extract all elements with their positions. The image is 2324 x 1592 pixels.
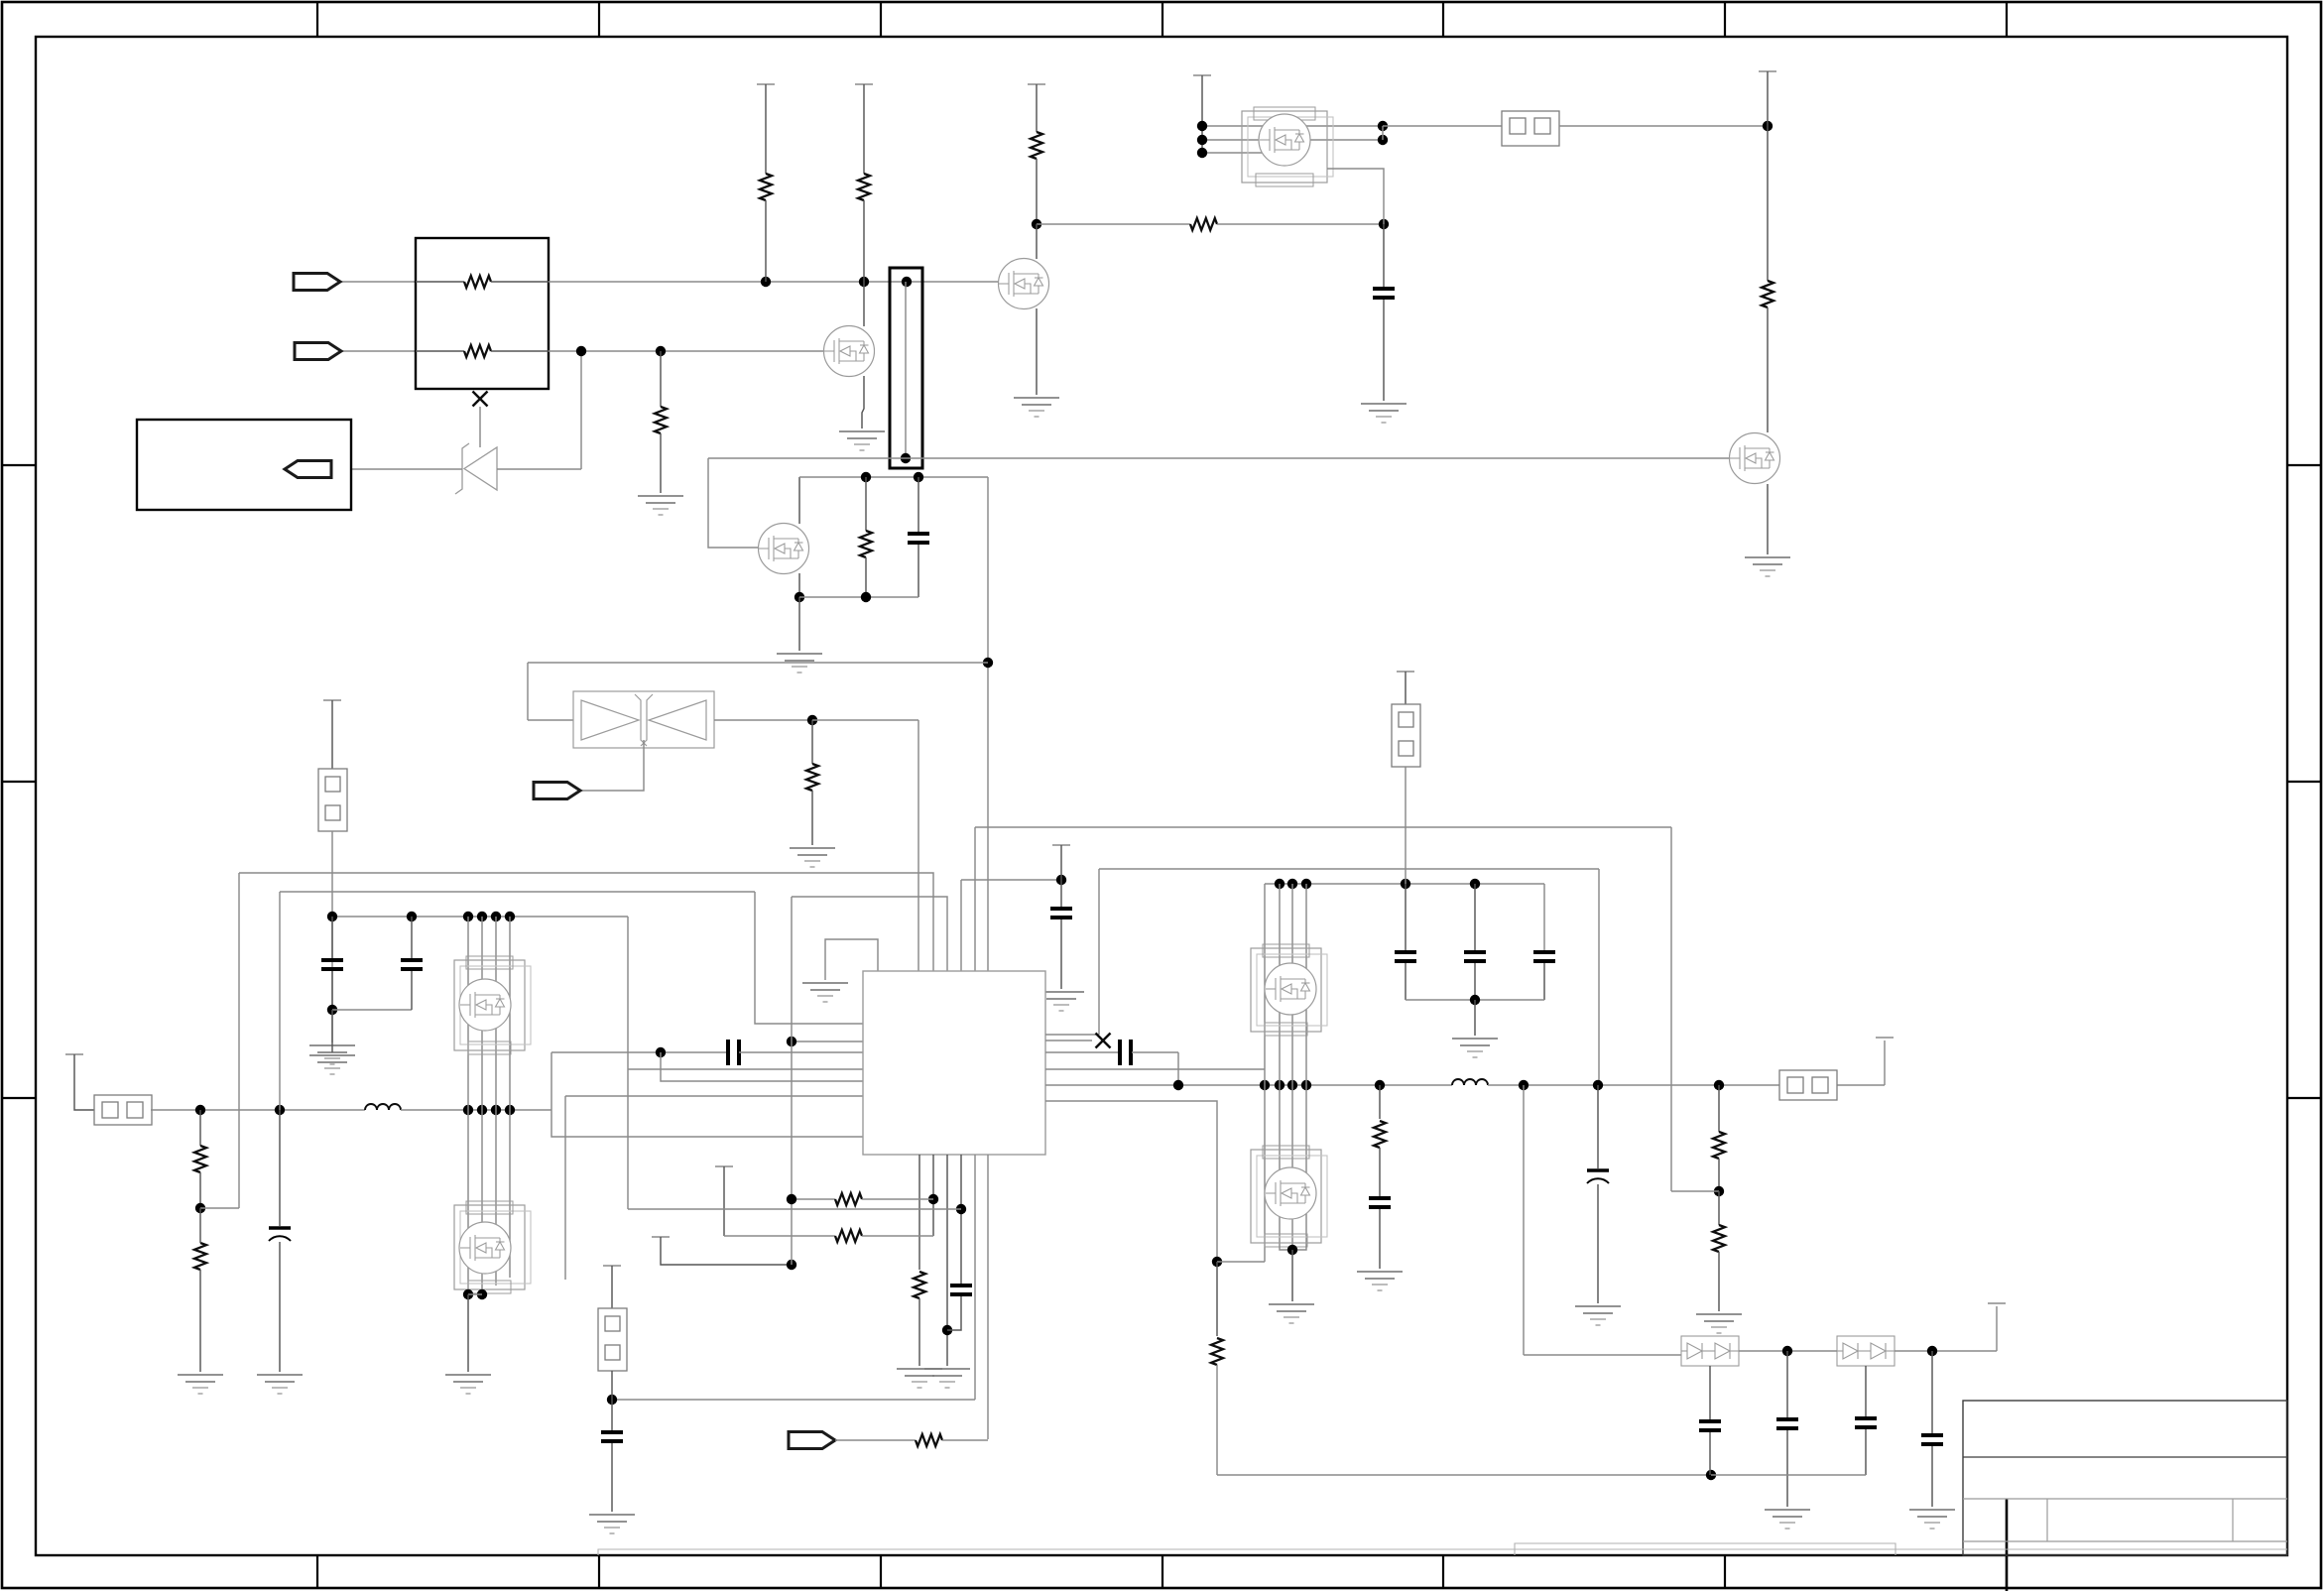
wire net834 down x1685 (1670, 827, 1672, 1191)
resistor R14 (835, 1193, 862, 1205)
ground (1361, 404, 1407, 423)
wire to C5 (411, 917, 413, 958)
border tick bottom 5 (1442, 1555, 1444, 1589)
capacitor C6 (series) (728, 1040, 739, 1065)
wire net924 (332, 916, 628, 918)
wire R14 net (792, 1198, 835, 1200)
wire J4 down (611, 1371, 613, 1400)
wire net887 (961, 879, 1061, 881)
wire C7 to ground (1060, 919, 1062, 989)
wire to C1 (917, 477, 919, 532)
wire IC pin stub to X (1045, 1040, 1092, 1041)
wire D1 cathode to flag3 (331, 468, 462, 470)
junction (914, 472, 923, 482)
wire C9 to x955 (947, 1296, 961, 1330)
junction (1714, 1186, 1724, 1196)
wire Q1 source to ground (862, 376, 864, 429)
wire SW rail (1045, 1084, 1452, 1086)
wire P1 pins top (1202, 125, 1383, 127)
wire stub down (723, 1166, 725, 1236)
wire IC pin x983 up (974, 827, 976, 971)
power stub (652, 1236, 670, 1238)
junction (1927, 1346, 1937, 1356)
resistor R19 (1713, 1225, 1725, 1252)
wire to R6 (865, 477, 867, 531)
wire to C10 (611, 1400, 613, 1430)
wire to IC pin 1090 (661, 1052, 863, 1081)
wire R15 right (862, 1235, 933, 1237)
wire net834 (975, 826, 1671, 828)
dual MOSFET package P3 (454, 1201, 531, 1293)
wire P1 pin3 (1202, 152, 1289, 154)
junction (505, 1105, 515, 1115)
wire Q3 source to ground (1036, 308, 1038, 395)
resistor R1 (464, 276, 491, 288)
wire x1275 elbow to dot (1217, 1261, 1265, 1263)
ground (1014, 398, 1059, 417)
power stub VIN (1193, 74, 1211, 76)
diode D1 (to output box) (455, 443, 497, 494)
wire stub down (1060, 845, 1062, 880)
resistor R8 (1031, 132, 1042, 159)
capacitor C2 (1373, 289, 1395, 298)
wire IC pin x969 down (960, 1155, 962, 1284)
power stub (1759, 70, 1776, 72)
junction (956, 1204, 966, 1214)
wire C12 down (1474, 963, 1476, 1000)
wire R7 to ground (811, 791, 813, 845)
wire to R19 (1718, 1191, 1720, 1225)
wire C14 to ground (1379, 1209, 1381, 1269)
wire net462 to Q2 gate (708, 458, 758, 548)
junction (463, 1105, 473, 1115)
junction (477, 1105, 487, 1115)
junction (1706, 1470, 1716, 1480)
wire P3 pin x514 (509, 1110, 511, 1278)
resistor R20 (1211, 1338, 1223, 1365)
junction (795, 592, 804, 602)
wire IC pin 1043 (1045, 1034, 1099, 1036)
capacitor C15 (bulk) (1587, 1170, 1609, 1183)
MOSFET Q3 (999, 259, 1049, 309)
connector J6 (1779, 1070, 1837, 1100)
wire caps bottom net (1406, 999, 1544, 1001)
resistor R6 (860, 531, 872, 557)
power stub (1028, 83, 1045, 85)
wire net876 (1099, 868, 1599, 870)
wire IC pin x996 down (987, 1155, 989, 1439)
wire fuse to net127 (1559, 125, 1768, 127)
wire IC pin x969 up (960, 880, 962, 971)
wire D2-D3 (1739, 1350, 1837, 1352)
border tick top 7 (2006, 2, 2008, 37)
wire C10 to ground (611, 1443, 613, 1512)
power stub (715, 1165, 733, 1167)
junction (861, 472, 871, 482)
junction (1714, 1080, 1724, 1090)
ground (1269, 1304, 1314, 1323)
wire rail to stub (1837, 1084, 1885, 1086)
wire P4 pin x1275 (1264, 884, 1266, 1085)
wire to C12 (1474, 884, 1476, 950)
wire R1 lead (416, 281, 464, 283)
wire comp net (551, 1051, 728, 1053)
wire P3 to ground (467, 1294, 469, 1372)
wire stub down (1201, 75, 1203, 153)
junction (407, 912, 417, 921)
border tick left 3 (2, 1097, 36, 1099)
wire stub down (1767, 71, 1769, 126)
wire C8 branch to rail (1177, 1052, 1179, 1085)
junction (859, 277, 869, 287)
wire net462 gate bus (708, 457, 1729, 459)
capacitor C7 (1050, 909, 1072, 918)
junction (656, 1047, 666, 1057)
wire to R20 (1216, 1262, 1218, 1336)
wire x633 vertical (627, 917, 629, 1209)
wire flag5 to R16 (835, 1439, 916, 1441)
junction connector pin2 (901, 453, 911, 463)
resistor R18 (1713, 1132, 1725, 1159)
wire TVS to node (714, 719, 812, 721)
junction (275, 1105, 285, 1115)
wire to C19 (1931, 1351, 1933, 1433)
capacitor C13 (1533, 952, 1555, 961)
wire net891 boot (1265, 883, 1544, 885)
capacitor C17 (1776, 1419, 1798, 1428)
wire R3 to net284 (765, 200, 767, 282)
wire tap to R12 (199, 1208, 201, 1243)
border tick bottom 1 (316, 1555, 318, 1589)
wire P2 pin x500 (495, 917, 497, 1110)
wire x798 vertical (791, 897, 793, 1265)
ground (790, 848, 835, 867)
junction (1470, 995, 1480, 1005)
wire R18 down (1718, 1159, 1720, 1191)
wire to IC pin 1105 (565, 1095, 863, 1097)
resistor R16 (916, 1434, 942, 1446)
ground (1452, 1039, 1498, 1057)
wire net1487 (1217, 1474, 1711, 1476)
junction (1375, 1080, 1385, 1090)
wire to IC pin 1146 (551, 1052, 863, 1137)
wire P5 pin x1290 (1279, 1085, 1281, 1245)
wire C17 to ground (1786, 1430, 1788, 1507)
wire Q2 source to ground (798, 597, 800, 651)
wire net899 to IC left pin (755, 892, 863, 1024)
wire C11 down (1405, 963, 1407, 1000)
wire x1108 up (1098, 869, 1100, 1035)
junction connector pin1 (902, 277, 912, 287)
wire R1 lead (491, 281, 549, 283)
wire to C4 (331, 917, 333, 958)
wire P5 to ground (1291, 1250, 1293, 1301)
junction (1401, 879, 1410, 889)
resistor network box (416, 238, 549, 389)
power stub (323, 699, 341, 701)
junction (983, 658, 993, 668)
border tick top 2 (598, 2, 600, 37)
wire net226 (1037, 223, 1190, 225)
wire P2 pin x486 (481, 917, 483, 1110)
wire net904 to IC top pin (792, 897, 947, 971)
wire to IC pin 1078 (628, 1068, 863, 1070)
ground (897, 1369, 942, 1388)
junction (1301, 879, 1311, 889)
junction (1519, 1080, 1529, 1090)
dual MOSFET package P1 (1242, 107, 1333, 186)
wire IC pin x927 down (918, 1155, 920, 1270)
junction (1197, 121, 1207, 131)
wire rail-left right part (401, 1109, 551, 1111)
resistor R4 (858, 174, 870, 200)
border tick top 5 (1442, 2, 1444, 37)
capacitor C18 (1855, 1418, 1877, 1427)
wire R10 to Q4 (1767, 307, 1769, 432)
junction (491, 1105, 501, 1115)
wire C19 to ground (1931, 1446, 1933, 1507)
wire rail elbow up (1884, 1041, 1886, 1085)
inductor L1 (365, 1104, 401, 1110)
wire elbow to stub (1996, 1306, 1998, 1351)
wire R4 to net284 (863, 200, 865, 282)
junction (1782, 1346, 1792, 1356)
wire IC pin 1078 to gate stack (1045, 1068, 1265, 1070)
wire to C3 (279, 1110, 281, 1226)
wire C8 right (1132, 1051, 1178, 1053)
ground (178, 1375, 223, 1394)
MOSFET Q1 (824, 326, 875, 377)
wire C1 to net602 (917, 545, 919, 597)
capacitor C3 (bulk) (269, 1228, 291, 1241)
wire P1 source to gate node (1327, 169, 1384, 224)
wire net1487 right (1711, 1474, 1866, 1476)
wire J1 internal (905, 282, 907, 458)
junction (1197, 148, 1207, 158)
capacitor C16 (1699, 1421, 1721, 1430)
wire net602 (799, 596, 918, 598)
wire P1 pins mid (1202, 139, 1383, 141)
ground (1909, 1510, 1955, 1529)
wire C2 to ground (1383, 300, 1385, 401)
capacitor C1 (908, 534, 929, 543)
resistor R10 (1762, 281, 1774, 307)
wire R17 to C14 (1379, 1148, 1381, 1196)
wire C3 to ground (279, 1242, 281, 1372)
wire tap to x241 (200, 1207, 239, 1209)
capacitor C12 (1464, 952, 1486, 961)
wire stub to R8 (1036, 84, 1038, 132)
border tick top 3 (880, 2, 882, 37)
dual diode D2 (1681, 1336, 1739, 1366)
junction (1470, 879, 1480, 889)
resistor R13 (914, 1272, 925, 1298)
wire TVS tap to flag4 (579, 740, 644, 791)
wire net481 down to IC (987, 477, 989, 971)
power stub (855, 83, 873, 85)
junction (477, 1289, 487, 1299)
border tick right 3 (2287, 1097, 2320, 1099)
wire to C2 (1383, 224, 1385, 287)
inductor L2 (1452, 1079, 1488, 1085)
junction (1275, 879, 1284, 889)
wire IC pin x983 down (974, 1155, 976, 1400)
fuse/jumper F1 (1502, 111, 1559, 146)
wire stub to R4 (863, 84, 865, 174)
ground (1696, 1314, 1742, 1333)
wire Q1 drain (863, 282, 865, 326)
capacitor C10 (601, 1432, 623, 1441)
junction (1212, 1257, 1222, 1267)
wire IC left pin 1050 (792, 1041, 863, 1042)
ground (777, 654, 822, 673)
capacitor C11 (1395, 952, 1416, 961)
wire net354 (549, 350, 824, 352)
wire stub to x798 (661, 1237, 792, 1265)
wire R12 to ground (199, 1270, 201, 1372)
junction (1593, 1080, 1603, 1090)
junction (195, 1203, 205, 1213)
wire R8 down (1036, 159, 1038, 224)
wire to C7 (1060, 880, 1062, 907)
wire node to IC pin x926 (812, 719, 918, 721)
wire P5 pin x1317 (1305, 1085, 1307, 1245)
wire to TVS (528, 719, 573, 721)
wire R16 right (942, 1439, 988, 1441)
connector J2 (94, 1095, 152, 1125)
resistor R11 (194, 1146, 206, 1172)
wire X to D1 (479, 407, 481, 447)
wire IC pin x955 down (946, 1155, 948, 1366)
wire P5 source tie (1280, 1245, 1306, 1250)
junction (1379, 219, 1389, 229)
junction (1301, 1080, 1311, 1090)
wire to ground (1474, 1000, 1476, 1036)
junction (1056, 875, 1066, 885)
wire net891 elbow to C13 (1543, 884, 1545, 952)
ground (1039, 992, 1084, 1011)
power stub (1052, 844, 1070, 846)
junction (1378, 135, 1388, 145)
ground (839, 431, 885, 450)
junction (327, 912, 337, 921)
ground (589, 1515, 635, 1533)
junction (327, 1005, 337, 1015)
wire IC pin 1110 to x1227 (1045, 1101, 1217, 1262)
net flag EN (534, 783, 580, 799)
wire P3 source tie (468, 1293, 482, 1295)
capacitor C19 (1921, 1435, 1943, 1444)
wire R14 right (862, 1198, 933, 1200)
junction (576, 346, 586, 356)
wire P3 pin x486 (481, 1110, 483, 1294)
junction (787, 1260, 796, 1270)
junction (1378, 121, 1388, 131)
wire C15 to ground (1597, 1184, 1599, 1303)
junction (477, 912, 487, 921)
MOSFET Q2 (759, 524, 809, 574)
wire C16 to net1487 (1709, 1432, 1711, 1475)
output block box (137, 420, 351, 510)
junction (607, 1395, 617, 1405)
wire P1 to fuse (1383, 125, 1502, 127)
dual MOSFET package P4 (1251, 944, 1327, 1036)
border tick bottom 6 (1724, 1555, 1726, 1589)
wire flag2 to R-box (341, 350, 416, 352)
junction (1287, 1080, 1297, 1090)
resistor R5 (655, 407, 667, 433)
junction (1275, 1080, 1284, 1090)
junction (761, 277, 771, 287)
ground (1765, 1510, 1810, 1529)
ground (638, 496, 683, 515)
wire x1275 down (1264, 1085, 1266, 1262)
wire net899 (280, 891, 755, 893)
revision bar (598, 1543, 2287, 1555)
wire net226 right (1217, 223, 1384, 225)
wire to ground (331, 1010, 333, 1052)
wire comp net right (739, 1051, 863, 1053)
wire x1536 down (1523, 1085, 1525, 1355)
capacitor C8 (series) (1120, 1040, 1131, 1065)
wire C4 down (331, 971, 333, 1010)
wire x282 up (279, 892, 281, 1110)
wire D3 to stub (1895, 1350, 1997, 1352)
connector J5 (1392, 704, 1420, 767)
resistor R7 (806, 764, 818, 791)
junction (1197, 135, 1207, 145)
wire SW rail right (1488, 1084, 1779, 1086)
junction (1032, 219, 1041, 229)
wire R11-R12 (199, 1172, 201, 1208)
border tick right 2 (2287, 781, 2320, 783)
dual MOSFET package P5 (1251, 1146, 1327, 1247)
wire D1 anode up to net354 (580, 351, 582, 469)
wire stub to J5 (1405, 672, 1407, 704)
resistor R2 (464, 345, 491, 357)
resistor R15 (835, 1230, 862, 1242)
junction (861, 592, 871, 602)
border tick left 1 (2, 464, 36, 466)
wire Q2 source (798, 573, 800, 597)
wire net880 to IC top pin (239, 873, 933, 971)
junction (1287, 1245, 1297, 1255)
wire P2 pin x514 (509, 917, 511, 1110)
net flag IN1 (294, 274, 340, 291)
wire J5 down (1405, 767, 1407, 884)
power stub (1397, 671, 1414, 673)
border tick bottom 7 (long) (2006, 1499, 2009, 1591)
ground (309, 1055, 355, 1074)
border tick bottom 2 (598, 1555, 600, 1589)
wire R15 net (724, 1235, 835, 1237)
MOSFET Q4 (1730, 433, 1780, 484)
wire to C11 (1405, 884, 1407, 950)
wire net284 (549, 281, 999, 283)
wire Q3 drain (1036, 224, 1038, 259)
capacitor C4 (321, 960, 343, 969)
ground (445, 1375, 491, 1394)
wire stub to R3 (765, 84, 767, 174)
border tick top 4 (1162, 2, 1163, 37)
power stub (757, 83, 775, 85)
wire net668 (528, 662, 988, 664)
junction (1260, 1080, 1270, 1090)
junction (1763, 121, 1773, 131)
wire down to IC pin (917, 720, 919, 971)
junction (195, 1105, 205, 1115)
junction (807, 715, 817, 725)
